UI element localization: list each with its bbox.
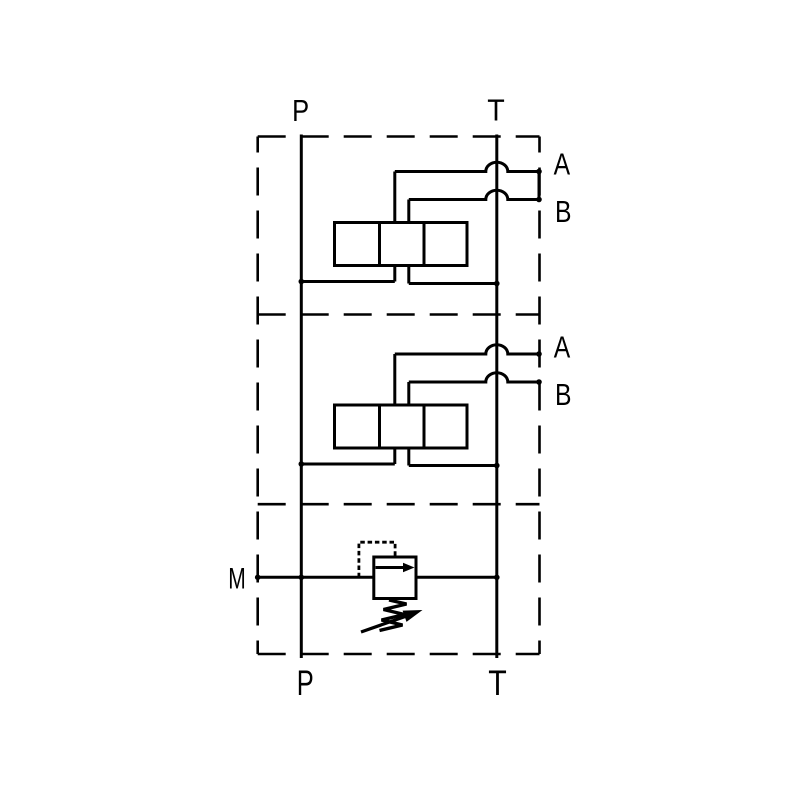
wire: V2 A-port stub (vertical) bbox=[393, 354, 396, 405]
wire: V1 A-B port connector on boundary bbox=[538, 172, 541, 200]
valve V2 body (three-position spool boxes) bbox=[335, 405, 468, 448]
node: V2 A port dot bbox=[536, 351, 542, 357]
wire: V2 P-connection line (horizontal to P) bbox=[301, 463, 395, 466]
relief valve RV1 body bbox=[374, 557, 416, 599]
wire: V1 T-connection line (horizontal to T) bbox=[409, 282, 497, 285]
svg-text:B: B bbox=[555, 194, 572, 229]
svg-text:T: T bbox=[488, 664, 507, 703]
relief valve RV1 spring (zigzag) bbox=[380, 600, 407, 631]
node: V2 junction on T bbox=[494, 463, 500, 469]
svg-text:A: A bbox=[554, 330, 571, 365]
svg-text:P: P bbox=[297, 664, 314, 703]
node: V2 junction on P bbox=[299, 461, 305, 467]
wire: T tank line (vertical) bbox=[495, 135, 498, 659]
relief valve RV1 pilot line (dashed) bbox=[359, 542, 395, 577]
svg-text:B: B bbox=[555, 377, 572, 412]
wire: V2 B-port stub (vertical) bbox=[407, 382, 410, 405]
manifold block boundary (dashed enclosure) bbox=[258, 137, 540, 655]
wire: V2 T-connection stub (vertical) bbox=[407, 448, 410, 466]
wire: V1 A-port stub (vertical) bbox=[393, 172, 396, 223]
wire: V2 A line with hop over T bbox=[395, 345, 539, 354]
wire: V2 T-connection line (horizontal to T) bbox=[409, 464, 497, 467]
node: V2 B port dot bbox=[536, 379, 542, 385]
wire: V1 B line with hop over T bbox=[409, 190, 539, 199]
wire: M gauge line (horizontal) bbox=[258, 576, 374, 579]
relief valve RV1 adjustment arrow (diagonal) bbox=[361, 616, 406, 632]
node: V1 B port dot bbox=[536, 197, 542, 203]
wire: V1 T-connection stub (vertical) bbox=[407, 266, 410, 284]
wire: V2 P-connection stub (vertical) bbox=[393, 448, 396, 464]
node: M port dot bbox=[255, 575, 261, 581]
node: V1 junction on P bbox=[299, 279, 305, 285]
relief valve RV1 flow arrow (inside body) bbox=[376, 566, 405, 569]
node: V1 junction on T bbox=[494, 281, 500, 287]
svg-text:P: P bbox=[292, 93, 309, 128]
wire: V1 P-connection stub (vertical) bbox=[393, 266, 396, 282]
wire: V1 B-port stub (vertical) bbox=[407, 200, 410, 223]
wire: V2 B line with hop over T bbox=[409, 373, 539, 382]
svg-text:A: A bbox=[554, 146, 571, 181]
svg-text:T: T bbox=[487, 93, 505, 128]
section separator line 2 (dashed) bbox=[258, 503, 540, 506]
node: junction relief outlet on T bbox=[494, 575, 500, 581]
valve V1 body (three-position spool boxes) bbox=[335, 223, 468, 266]
node: V1 A port dot bbox=[536, 169, 542, 175]
wire: V1 P-connection line (horizontal to P) bbox=[301, 280, 395, 283]
wire: P supply line (vertical) bbox=[300, 135, 303, 659]
node: junction M line on P bbox=[299, 575, 305, 581]
wire: relief valve outlet line to T bbox=[416, 576, 497, 579]
svg-text:M: M bbox=[228, 563, 246, 596]
wire: V1 A line with hop over T bbox=[395, 162, 539, 171]
section separator line 1 (dashed) bbox=[258, 313, 540, 316]
